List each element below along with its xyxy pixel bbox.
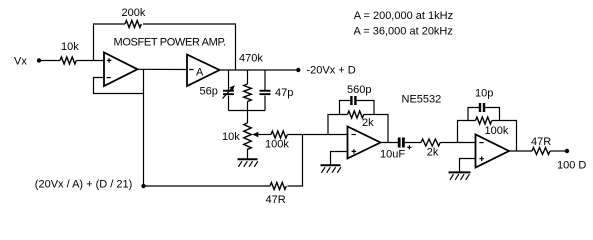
node (20Vx / A) + (D / 21) [35,179,146,191]
wire amp A output to -20Vx+D node [220,69,297,71]
svg-text:10k: 10k [61,41,79,53]
capacitor C 10p [468,88,500,121]
resistor R 2k (series) [421,139,440,159]
resistor R 100k (U3 feedback) [476,117,509,137]
resistor R 2k (U2 feedback) [348,111,375,129]
svg-text:-20Vx + D: -20Vx + D [307,65,356,77]
wire U3 non-inverting input to ground [460,159,476,172]
capacitor C 47p [260,70,294,111]
wire U2 feedback rail [328,115,388,143]
svg-text:A = 36,000 at 20kHz: A = 36,000 at 20kHz [354,26,453,38]
svg-text:Vx: Vx [14,56,27,68]
wire U3 output to R 47R [509,150,532,152]
svg-text:560p: 560p [347,84,371,96]
svg-text:47p: 47p [275,87,293,99]
svg-text:200k: 200k [122,7,146,19]
wire 47R to output node [550,150,565,152]
svg-text:(20Vx / A) + (D / 21): (20Vx / A) + (D / 21) [35,179,133,191]
svg-text:100 D: 100 D [557,160,586,172]
resistor R 470k [239,53,263,111]
svg-text:100k: 100k [485,125,509,137]
wire bottom bus to 47R [144,185,271,187]
wire bottom bus of RC network [229,110,266,112]
svg-text:10uF: 10uF [380,149,405,161]
capacitor C 560p [340,84,375,115]
wire 200k feedback top run [94,24,236,70]
svg-text:MOSFET POWER AMP.: MOSFET POWER AMP. [114,37,227,49]
svg-text:A = 200,000 at 1kHz: A = 200,000 at 1kHz [354,10,453,22]
op-amp A (MOSFET power amp) [187,55,220,87]
capacitor C 56p (variable) [200,70,235,111]
potentiometer R 10k [222,111,271,159]
svg-text:10k: 10k [222,131,240,143]
svg-text:100k: 100k [265,139,289,151]
resistor R 47R (output) [531,136,551,155]
capacitor C 10uF (polarized) [380,138,412,161]
ground (U2 + input) [321,165,341,173]
node -20Vx + D [296,65,356,77]
svg-text:47R: 47R [266,194,286,206]
wire node A vertical (U1 output down to bottom bus) [143,70,145,187]
wire 2k to op-amp U3 inverting input [440,142,475,144]
node 100 D output terminal [557,149,586,172]
resistor R 200k [122,7,146,28]
wire Vx to R 10k [41,60,60,62]
wire U2 output to 10uF [381,142,399,144]
wire U1 inverting feedback loop [94,78,144,94]
wire 47R up to wiper line [288,135,303,187]
svg-text:A: A [196,67,204,79]
op-amp U3 (NE5532 second half) [476,135,510,168]
ground (below 10k pot) [238,159,258,167]
svg-text:2k: 2k [427,147,439,159]
node Vx input terminal [14,56,41,68]
wire U2 non-inverting input to ground [331,152,348,165]
svg-text:56p: 56p [200,86,218,98]
op-amp U2 (NE5532 first half) [348,127,381,159]
resistor R 100k (wiper series) [265,131,289,151]
svg-text:10p: 10p [475,88,493,100]
wire U3 feedback rail [458,121,517,152]
ground (U3 + input) [449,172,471,179]
resistor 10k (input) [60,41,79,64]
svg-text:47R: 47R [531,136,551,148]
svg-text:470k: 470k [239,53,263,65]
wire U1 output to amp A [138,68,188,70]
svg-text:2k: 2k [362,117,374,129]
wire wiper node to op-amp U2 inverting input [288,134,348,136]
svg-text:NE5532: NE5532 [402,94,442,106]
wire R10k to op-amp U1 + input [77,60,105,62]
op-amp U1 (input stage) [104,53,138,87]
resistor R 47R (bottom) [266,183,287,207]
wire 10uF to R 2k series [405,142,421,144]
